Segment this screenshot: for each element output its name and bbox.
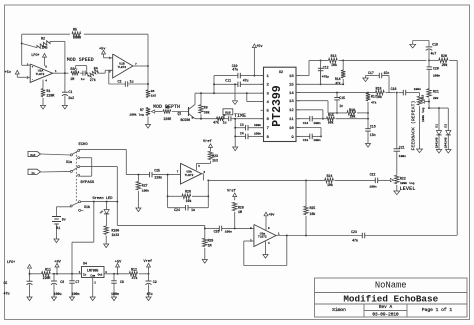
svg-text:15n: 15n [370,133,376,137]
svg-text:1M: 1M [238,210,242,214]
svg-text:NoName: NoName [375,281,407,291]
svg-text:R6: R6 [151,90,155,93]
svg-text:+5v: +5v [5,71,12,75]
svg-text:1M: 1M [70,77,74,81]
svg-text:In: In [83,274,87,277]
svg-text:R12: R12 [131,268,137,272]
svg-text:TL072: TL072 [36,73,45,76]
svg-text:680R: 680R [73,36,81,40]
svg-text:LFO+: LFO+ [7,261,15,265]
svg-text:Vref: Vref [144,259,153,264]
svg-text:R10: R10 [225,112,231,115]
svg-text:Out: Out [98,274,103,277]
svg-text:C23: C23 [351,230,357,234]
svg-text:R27: R27 [142,184,148,188]
svg-text:R2: R2 [41,37,45,41]
svg-text:100n: 100n [313,122,320,125]
svg-text:15: 15 [289,84,294,88]
svg-text:D2: D2 [445,124,448,128]
svg-text:2k3: 2k3 [212,159,218,163]
svg-text:R1: R1 [47,89,51,93]
svg-text:R5: R5 [73,28,77,32]
svg-text:R4: R4 [94,67,98,71]
svg-text:10k: 10k [327,183,333,187]
svg-text:C11: C11 [225,78,231,82]
svg-text:C6: C6 [60,280,64,284]
svg-text:Out: Out [30,154,35,157]
svg-text:10k: 10k [186,199,192,203]
svg-text:C25: C25 [154,168,160,172]
svg-text:100k log: 100k log [400,181,415,185]
svg-text:100n: 100n [369,186,376,189]
svg-text:1u: 1u [81,77,85,81]
svg-text:Simon: Simon [332,307,346,313]
svg-text:R15: R15 [328,113,334,117]
svg-text:100u: 100u [54,292,62,296]
svg-text:1n: 1n [339,104,343,108]
svg-text:R20: R20 [441,54,447,58]
svg-text:100k log: 100k log [421,107,425,122]
svg-text:C17: C17 [368,71,374,75]
svg-text:BC560: BC560 [181,118,191,122]
svg-text:R25: R25 [310,206,316,210]
svg-text:100n: 100n [313,139,320,142]
svg-text:R19: R19 [421,94,424,99]
svg-text:100n: 100n [254,133,261,136]
svg-text:27k: 27k [90,78,96,82]
svg-text:MOD SPEED: MOD SPEED [67,57,94,63]
svg-text:+5v: +5v [256,45,262,49]
svg-text:C16: C16 [370,125,376,129]
svg-text:100k: 100k [142,189,149,193]
svg-text:10k: 10k [376,95,382,99]
svg-text:R8: R8 [166,106,170,110]
svg-text:C3: C3 [240,123,244,127]
svg-text:+9V: +9V [54,260,61,264]
svg-text:R21: R21 [433,90,439,94]
svg-text:R17: R17 [371,94,377,98]
svg-text:C8: C8 [120,280,124,284]
svg-text:B1: B1 [56,226,60,230]
svg-text:C14: C14 [303,122,309,125]
svg-text:2u2: 2u2 [68,96,74,100]
svg-text:1k33: 1k33 [112,233,120,237]
svg-text:100n: 100n [225,231,232,234]
svg-text:13: 13 [289,100,294,104]
svg-text:C13: C13 [303,139,309,142]
svg-text:1u: 1u [191,208,195,212]
svg-text:TL072: TL072 [185,174,194,177]
svg-text:In: In [31,172,35,175]
svg-text:BYPASS: BYPASS [81,181,95,185]
svg-text:LEVEL: LEVEL [400,186,416,192]
svg-text:C19: C19 [432,43,438,47]
svg-text:1M: 1M [208,243,212,247]
svg-text:20k: 20k [433,96,439,100]
svg-text:R14: R14 [335,77,341,81]
svg-text:100n: 100n [433,74,440,77]
svg-text:C5: C5 [4,281,8,285]
svg-text:Green LED: Green LED [93,197,114,201]
svg-text:12: 12 [289,109,294,113]
svg-text:1u: 1u [130,80,134,84]
svg-text:10: 10 [289,127,294,131]
svg-text:39k: 39k [204,110,210,114]
svg-text:C9: C9 [153,280,157,284]
svg-text:C22: C22 [370,173,376,177]
svg-text:1k5: 1k5 [151,94,156,98]
svg-text:R26: R26 [185,189,191,193]
svg-text:R22: R22 [400,176,406,180]
svg-text:ECHO: ECHO [79,143,89,147]
svg-text:Rev A: Rev A [379,305,393,310]
svg-text:Com: Com [90,275,95,278]
svg-text:47u: 47u [232,68,238,72]
svg-text:C2: C2 [118,80,122,84]
svg-text:R13: R13 [331,54,337,58]
svg-text:1u: 1u [223,121,227,125]
svg-text:10k: 10k [350,114,356,118]
svg-text:47u: 47u [147,292,153,296]
svg-text:S1a: S1a [66,160,72,164]
svg-text:R7: R7 [140,108,144,112]
svg-text:100n: 100n [414,88,421,91]
svg-text:D1: D1 [435,124,438,128]
svg-text:C21: C21 [399,146,405,150]
svg-text:220R: 220R [164,117,172,121]
svg-text:R9: R9 [204,105,208,109]
svg-text:R29: R29 [208,238,214,242]
svg-text:+5V: +5V [115,260,122,264]
svg-text:1N4148: 1N4148 [435,137,438,148]
svg-text:TL072: TL072 [117,66,126,69]
svg-text:C18: C18 [391,87,397,91]
svg-text:LM7805: LM7805 [87,268,99,272]
svg-text:14: 14 [289,92,294,96]
svg-text:C4: C4 [240,132,244,136]
svg-text:Vref: Vref [203,139,212,144]
svg-text:100n: 100n [399,155,406,158]
svg-text:C7: C7 [76,280,80,284]
svg-text:LFO+: LFO+ [31,54,39,58]
svg-text:100n: 100n [111,292,119,296]
svg-text:C12: C12 [323,65,329,69]
svg-text:TL072: TL072 [258,236,267,239]
svg-text:10k: 10k [331,63,337,67]
svg-text:9v: 9v [62,218,66,222]
svg-text:R11: R11 [45,268,51,272]
svg-text:Page 1 of 1: Page 1 of 1 [422,307,453,313]
svg-text:C26: C26 [214,230,220,234]
svg-text:C24: C24 [174,208,180,212]
svg-text:-: - [32,78,34,82]
svg-text:4u7: 4u7 [431,52,437,56]
svg-text:47k: 47k [371,100,377,104]
svg-text:C15: C15 [339,96,345,100]
svg-text:Vref: Vref [227,188,236,193]
svg-text:U2: U2 [279,71,283,75]
svg-text:FEEDBACK (REPEAT): FEEDBACK (REPEAT) [410,101,416,151]
svg-text:470p: 470p [322,76,329,79]
svg-text:R23: R23 [212,154,218,158]
svg-text:10k: 10k [310,212,316,216]
svg-text:C1: C1 [68,90,72,94]
svg-text:16: 16 [289,75,294,79]
svg-text:Modified EchoBase: Modified EchoBase [343,293,438,304]
svg-text:50k: 50k [328,121,334,125]
svg-text:C20: C20 [433,66,439,70]
svg-text:47k: 47k [335,81,341,85]
svg-text:47u: 47u [4,292,10,296]
svg-text:S1b: S1b [84,205,90,209]
svg-text:220n: 220n [154,175,162,179]
svg-text:Q1: Q1 [178,112,182,116]
svg-text:R24: R24 [327,174,333,178]
svg-text:47k: 47k [213,121,219,125]
svg-text:+9v: +9v [268,213,274,217]
svg-text:U4: U4 [83,262,87,266]
svg-text:47n: 47n [352,239,358,243]
svg-text:+5v: +5v [99,47,106,51]
svg-text:R16: R16 [349,108,355,112]
svg-text:11: 11 [289,118,294,122]
svg-text:1N4148: 1N4148 [445,137,448,148]
svg-text:47k: 47k [132,276,138,280]
svg-text:03-09-2010: 03-09-2010 [372,312,399,317]
svg-text:15n: 15n [384,71,390,75]
svg-text:100n: 100n [72,292,80,296]
svg-text:1M5: 1M5 [41,47,47,51]
svg-text:100k log: 100k log [129,113,144,117]
svg-text:100n: 100n [254,124,261,127]
svg-text:PT2399: PT2399 [271,85,284,127]
svg-text:U3b: U3b [186,170,192,174]
svg-text:20k: 20k [442,63,448,67]
svg-text:R18: R18 [376,86,382,90]
svg-text:R3: R3 [71,67,75,71]
svg-text:R28: R28 [238,206,244,210]
svg-text:47u: 47u [243,78,249,82]
svg-text:220R: 220R [43,276,51,280]
svg-text:220R: 220R [47,94,55,98]
